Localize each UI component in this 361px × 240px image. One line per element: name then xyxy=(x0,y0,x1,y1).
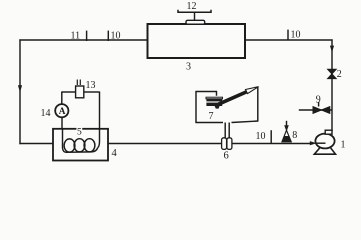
svg-text:10: 10 xyxy=(111,31,121,42)
igniter 7 rod xyxy=(219,92,248,105)
pump 1 body xyxy=(315,134,334,149)
flow arrow on right trunk xyxy=(330,46,334,53)
coil 5 loop 1 xyxy=(64,139,75,152)
wire right trunk xyxy=(331,39,333,131)
svg-text:11: 11 xyxy=(71,31,81,42)
svg-text:10: 10 xyxy=(256,131,266,142)
tick mark 11 xyxy=(86,31,88,41)
burner box 7 top edge with stub xyxy=(195,92,216,96)
union 6 left shell xyxy=(222,138,227,150)
pump 1 nozzle xyxy=(325,130,332,134)
tube from box 7 to union 6 right line xyxy=(228,123,230,139)
wire top pipe right segment xyxy=(245,39,333,41)
igniter 7 handle upper xyxy=(206,99,222,102)
hand valve 12 stem xyxy=(194,13,196,22)
label 9 leader tick xyxy=(318,102,320,107)
hand valve 12 base xyxy=(186,20,205,24)
svg-text:9: 9 xyxy=(316,95,321,106)
valve 9 stub xyxy=(299,109,332,111)
svg-text:10: 10 xyxy=(291,29,301,40)
wire bottom pipe main segment xyxy=(108,143,311,145)
gauge line lower segment xyxy=(61,117,63,129)
sensor 13 body xyxy=(76,86,84,98)
tank 4 xyxy=(53,129,108,161)
svg-text:13: 13 xyxy=(86,80,96,91)
burner box 7 bottom edge left part xyxy=(195,122,223,124)
coil 5 right lead xyxy=(98,129,100,148)
strainer 8 stem xyxy=(286,121,288,127)
tick mark 10 top-right xyxy=(287,30,289,41)
igniter 7 nib xyxy=(215,106,220,109)
svg-text:5: 5 xyxy=(77,128,82,138)
coil 5 loop 3 xyxy=(84,139,95,152)
flow arrow into pump xyxy=(310,141,317,145)
tick mark 10 top-left xyxy=(107,31,109,41)
coil 5 bottom run xyxy=(66,148,98,153)
igniter 7 hollow tip xyxy=(246,87,259,94)
svg-text:7: 7 xyxy=(209,111,214,122)
svg-text:14: 14 xyxy=(41,108,51,119)
vessel 3 xyxy=(148,24,246,58)
tick mark 10 bottom xyxy=(270,130,272,144)
coil 5 loop 2 xyxy=(74,139,85,152)
burner box 7 right edge xyxy=(257,87,259,122)
ammeter 14 xyxy=(55,104,68,117)
valve 9 xyxy=(313,107,330,114)
svg-text:2: 2 xyxy=(337,69,342,80)
burner box 7 bottom edge right part xyxy=(232,121,259,123)
flow arrow on left trunk xyxy=(18,85,22,92)
coil 5 left lead xyxy=(63,129,68,153)
strainer 8 funnel fill xyxy=(282,136,291,142)
igniter 7 handle lower xyxy=(206,103,222,106)
svg-text:A: A xyxy=(59,107,66,117)
hand valve 12 handlebar xyxy=(178,10,211,13)
svg-text:6: 6 xyxy=(224,150,229,161)
sensing loop top line left xyxy=(61,91,76,93)
pump 1 inlet chord xyxy=(316,142,326,144)
gauge line upper segment xyxy=(61,92,63,104)
tube from box 7 to union 6 left line xyxy=(224,123,226,139)
wire top pipe left segment xyxy=(19,39,147,41)
svg-text:4: 4 xyxy=(112,148,118,159)
svg-text:1: 1 xyxy=(341,140,346,151)
union 6 right shell xyxy=(227,138,232,150)
svg-text:8: 8 xyxy=(292,130,297,141)
wire left trunk xyxy=(19,39,21,144)
sensing loop top line right xyxy=(84,91,100,93)
wire bottom pipe left segment xyxy=(19,143,53,145)
sensor 13 top ticks xyxy=(77,80,80,86)
strainer 8 arrow xyxy=(284,125,289,132)
svg-text:3: 3 xyxy=(186,62,191,73)
igniter 7 cap xyxy=(206,97,223,99)
pump 1 base xyxy=(314,147,335,154)
valve 2 xyxy=(328,69,337,78)
sensing loop right drop xyxy=(99,92,101,130)
svg-text:12: 12 xyxy=(187,1,197,12)
burner box 7 left edge xyxy=(195,92,197,123)
strainer 8 funnel xyxy=(282,130,291,142)
